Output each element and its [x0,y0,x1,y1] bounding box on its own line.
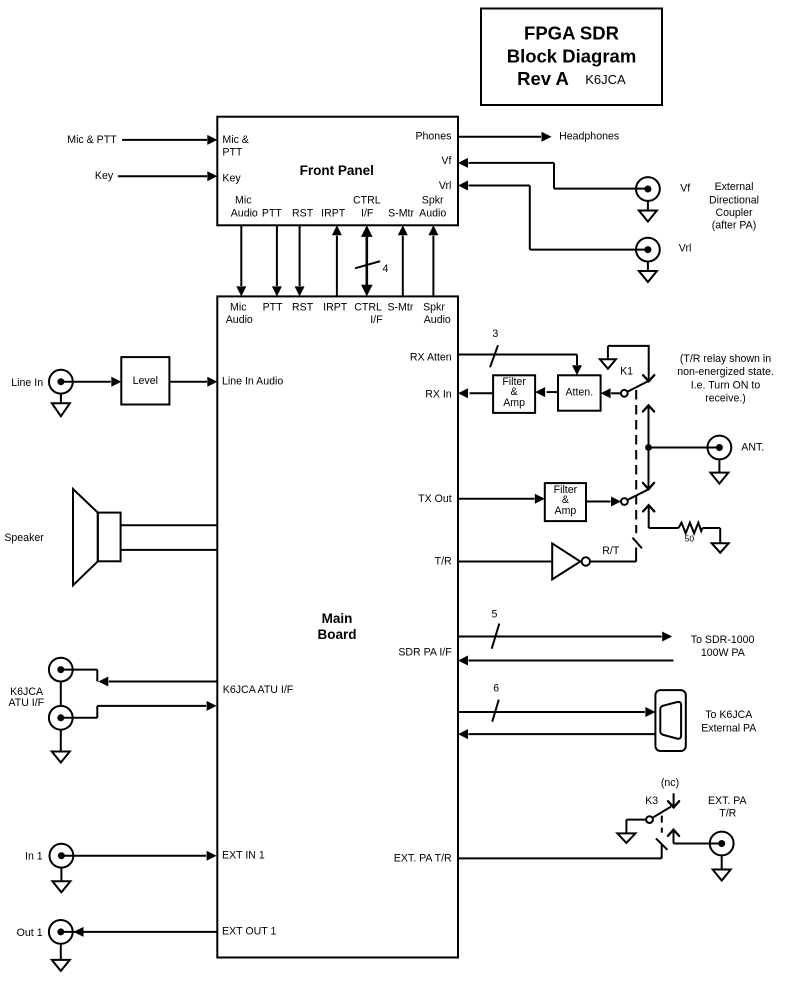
K1 RX fixed contact arrow [643,375,654,381]
wire Vrl to front panel [458,181,468,191]
wire RX Atten to attenuator [458,354,577,356]
bus width slash 3 [490,345,498,367]
svg-text:Level: Level [133,375,158,387]
K1 TX switch arm [627,489,650,501]
svg-text:Key: Key [222,173,241,185]
ground below Line In jack [60,394,62,404]
svg-text:3: 3 [492,328,498,340]
svg-text:PTT: PTT [263,301,284,313]
ground resistor [712,543,729,553]
wire RX filter to RX In [470,392,494,394]
connector DB9 to external PA [655,690,685,751]
svg-text:Main: Main [322,611,353,626]
svg-text:Block Diagram: Block Diagram [507,45,637,66]
svg-text:CTRL: CTRL [353,195,381,207]
svg-text:(T/R relay shown in: (T/R relay shown in [680,353,771,365]
svg-text:100W PA: 100W PA [701,647,746,659]
ground below ATU lower jack [60,730,62,752]
svg-text:Audio: Audio [226,314,253,326]
svg-text:RX In: RX In [425,389,452,401]
svg-text:Directional: Directional [709,195,759,207]
wire K1 top [608,345,649,347]
svg-text:Coupler: Coupler [715,207,753,219]
wire speaker top [121,524,218,526]
wire TX filter to K1 TX contact [586,501,611,503]
connector Vrl jack [636,238,660,262]
svg-text:non-energized state.: non-energized state. [677,366,774,378]
svg-text:Spkr: Spkr [422,195,444,207]
svg-text:50: 50 [685,533,695,543]
svg-text:K3: K3 [645,795,658,807]
svg-text:K1: K1 [620,366,633,378]
wire ext PA out [458,711,645,713]
svg-text:CTRL: CTRL [354,301,382,313]
svg-text:Audio: Audio [424,314,451,326]
ground K1 coil [607,346,609,359]
wire Line In jack to Level [61,381,111,383]
svg-text:receive.): receive.) [705,393,746,405]
wire Mic & PTT to front panel [122,139,207,141]
svg-text:External PA: External PA [701,722,757,734]
svg-text:PTT: PTT [222,147,243,159]
svg-text:SDR PA I/F: SDR PA I/F [398,647,452,659]
svg-text:External: External [715,181,754,193]
svg-text:Mic: Mic [235,195,252,207]
svg-text:To SDR-1000: To SDR-1000 [691,634,755,646]
wire RST down [299,225,301,286]
svg-text:EXT. PA T/R: EXT. PA T/R [394,852,452,864]
resistor 50 ohm [679,523,703,534]
junction antenna node [645,444,652,451]
svg-text:ANT.: ANT. [741,441,764,453]
svg-text:RST: RST [292,301,314,313]
svg-text:Front Panel: Front Panel [300,163,374,178]
ground K3 [617,833,635,843]
svg-text:EXT OUT 1: EXT OUT 1 [222,926,276,938]
bus width slash CTRL [355,261,380,268]
svg-text:Speaker: Speaker [4,532,44,544]
wire main board to Out 1 [61,931,84,933]
svg-text:IRPT: IRPT [323,301,348,313]
wire Level to main board [169,381,207,383]
svg-text:Phones: Phones [415,130,451,142]
svg-text:Vf: Vf [441,155,451,167]
svg-text:T/R: T/R [719,807,736,819]
block Level [121,357,169,404]
svg-text:S-Mtr: S-Mtr [388,208,414,220]
svg-text:Key: Key [95,170,114,182]
connector Out 1 jack [49,920,73,944]
K3 lower switch arm [656,838,667,849]
svg-text:Rev A: Rev A [517,68,569,89]
inverter U1 [552,543,580,579]
K3 nc fixed contact arrow [673,793,675,807]
svg-text:FPGA SDR: FPGA SDR [524,23,619,44]
block Atten [558,375,601,410]
svg-text:Headphones: Headphones [559,131,619,143]
wire inverter to K1 actuator [590,561,636,563]
svg-text:Line In Audio: Line In Audio [222,376,283,388]
connector EXT PA T/R jack [710,832,734,856]
wire ATU into board [61,717,98,719]
svg-text:Audio: Audio [419,208,446,220]
svg-text:RST: RST [292,208,314,220]
svg-text:Vf: Vf [680,183,690,195]
connector Vf jack [636,177,660,201]
svg-text:Out 1: Out 1 [17,927,43,939]
wire to resistor [649,527,679,529]
front panel box [217,117,458,226]
wire Atten to RX filter [547,391,558,393]
svg-text:RX Atten: RX Atten [410,351,452,363]
K3 T fixed contact arrow to jack [673,830,675,844]
wire Mic Audio down [240,225,242,286]
wire PTT down [276,225,278,286]
svg-text:Line In: Line In [11,377,43,389]
K1 RX pivot [621,390,628,397]
K3 mechanical link dashed [661,816,663,833]
svg-text:TX Out: TX Out [418,493,452,505]
svg-text:(nc): (nc) [661,777,679,789]
wire EXT PA T/R from board [458,857,662,859]
svg-text:Audio: Audio [231,208,258,220]
wire SDR PA in [469,660,674,662]
ground below Vrl jack [647,262,649,272]
svg-text:R/T: R/T [602,545,620,557]
wire ATU jacks link [60,682,62,706]
svg-text:Mic & PTT: Mic & PTT [67,134,117,146]
K1 TX pivot [621,498,628,505]
title box [481,9,662,106]
svg-text:Amp: Amp [555,505,577,517]
wire SDR PA out [458,636,662,638]
svg-text:In 1: In 1 [25,851,43,863]
connector ANT jack [708,436,732,460]
ground below Out 1 jack [60,944,62,960]
connector In 1 jack [50,844,74,868]
bus width slash 5 [492,624,500,649]
ground below In 1 jack [60,868,62,881]
svg-text:T/R: T/R [435,556,452,568]
svg-text:Board: Board [317,627,356,642]
svg-text:Amp: Amp [503,397,525,409]
svg-text:Atten.: Atten. [565,387,593,399]
wire In 1 to main board [61,855,206,857]
wire Key to front panel [118,175,207,177]
svg-text:Mic &: Mic & [222,134,248,146]
wire TX Out to TX filter [458,498,534,500]
connector Line In jack [49,370,73,394]
svg-text:EXT IN 1: EXT IN 1 [222,850,265,862]
svg-text:Vrl: Vrl [439,180,452,192]
wire Spkr Audio up [432,236,434,297]
K3 upper switch arm [653,807,672,818]
svg-text:To K6JCA: To K6JCA [705,709,753,721]
svg-text:Vrl: Vrl [679,243,692,255]
svg-text:4: 4 [383,263,389,275]
svg-text:K6JCA ATU I/F: K6JCA ATU I/F [223,684,294,696]
speaker cone [73,489,98,585]
bus width slash 6 [492,700,499,722]
K1 actuator arm [633,538,642,549]
svg-text:Mic: Mic [230,301,247,313]
K1 RX switch arm [627,380,650,392]
wire Vf to front panel [458,158,468,168]
ground below Vf jack [647,201,649,211]
svg-text:PTT: PTT [262,208,283,220]
svg-text:(after PA): (after PA) [712,219,757,231]
wire K3 pivot to ground [626,819,646,821]
block RX filter amp [493,375,535,413]
ground below EXT PA T/R jack [721,855,723,869]
wire Phones to Headphones [458,136,541,138]
wire T/R to inverter [458,561,552,563]
wire CTRL I/F bus bidirectional [365,234,368,288]
wire K1 pivot to Atten [611,392,621,394]
connector ATU upper jack [49,658,73,682]
wire ATU out of board [109,681,218,683]
svg-text:I/F: I/F [361,208,374,220]
K1 mechanical link dashed [635,390,637,533]
K1 TX fixed contact arrow to load [648,505,650,528]
svg-text:IRPT: IRPT [321,208,346,220]
svg-text:6: 6 [493,683,499,695]
svg-text:EXT. PA: EXT. PA [708,795,748,807]
svg-text:ATU I/F: ATU I/F [8,697,44,709]
svg-text:Spkr: Spkr [423,301,445,313]
ground below ANT jack [718,459,720,472]
wire S-Mtr up [402,236,404,297]
svg-text:5: 5 [492,608,498,620]
svg-text:S-Mtr: S-Mtr [387,301,413,313]
wire junction to ANT jack [649,447,720,449]
wire speaker bottom [121,549,218,551]
block TX filter amp [545,483,586,521]
speaker driver [98,513,121,562]
wire IRPT up [336,236,338,297]
wire antenna bus vertical [648,405,650,489]
K3 pivot [646,816,653,823]
connector ATU lower jack [49,706,73,730]
svg-text:K6JCA: K6JCA [585,72,626,87]
main board box [217,296,458,957]
svg-text:I/F: I/F [370,314,383,326]
wire ext PA in [469,733,656,735]
svg-text:I.e. Turn ON to: I.e. Turn ON to [691,379,761,391]
wire resistor to ground [702,527,720,529]
